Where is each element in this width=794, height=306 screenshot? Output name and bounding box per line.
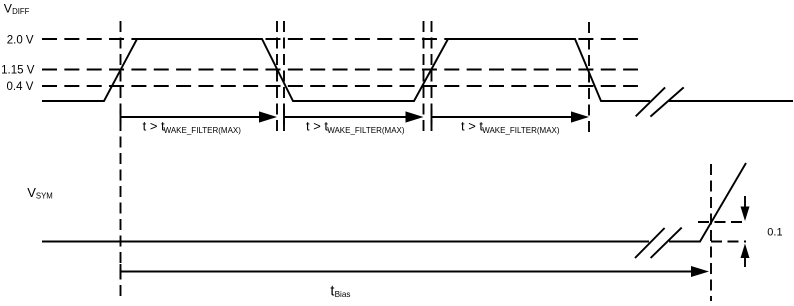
node VDIFF label <box>4 2 30 17</box>
wire vertical dashed line falling edge 2 (1.15 V crossing) <box>588 22 590 137</box>
svg-text:2.0 V: 2.0 V <box>7 34 34 46</box>
wire VDIFF waveform <box>42 39 793 101</box>
node label t>twake_filter(max) 3 <box>461 119 560 136</box>
svg-text:0.4 V: 0.4 V <box>7 81 34 93</box>
node arrow t>twake_filter 3 <box>432 110 590 125</box>
wire vertical dashed line at first rising edge (1.15 V crossing) <box>120 21 122 301</box>
wire short dashed line at 0.1 upper level <box>698 221 746 223</box>
svg-text:SYM: SYM <box>36 192 53 201</box>
svg-text:t > t: t > t <box>306 119 328 134</box>
svg-text:DIFF: DIFF <box>12 7 30 16</box>
wire vertical dashed line rising edge 2 (1.15 V crossing) <box>431 21 433 135</box>
svg-text:1.15 V: 1.15 V <box>1 64 35 76</box>
node tBias arrow <box>121 264 710 279</box>
svg-text:V: V <box>27 185 36 200</box>
wire vertical dashed line falling edge 1 (1.15 V crossing) <box>276 21 278 135</box>
node arrow t>twake_filter 2 <box>284 110 424 125</box>
svg-text:t > t: t > t <box>461 119 483 134</box>
node arrow t>twake_filter 1 <box>121 110 278 125</box>
node VSYM break slash 2 <box>651 228 682 258</box>
svg-text:WAKE_FILTER(MAX): WAKE_FILTER(MAX) <box>164 126 242 135</box>
svg-text:WAKE_FILTER(MAX): WAKE_FILTER(MAX) <box>482 126 560 135</box>
svg-text:t > t: t > t <box>143 119 165 134</box>
node label t>twake_filter(max) 1 <box>143 119 242 136</box>
wire 0.4 V dashed level line <box>42 85 638 87</box>
node label t>twake_filter(max) 2 <box>306 119 405 136</box>
svg-text:0.1: 0.1 <box>767 226 782 238</box>
wire vertical dashed line at bias end <box>710 164 712 301</box>
wire 2.0 V dashed level line <box>42 38 638 40</box>
svg-text:WAKE_FILTER(MAX): WAKE_FILTER(MAX) <box>327 126 405 135</box>
node up arrow at 0.1 measurement <box>741 244 750 268</box>
wire VSYM waveform <box>42 163 746 242</box>
svg-text:Bias: Bias <box>335 290 351 299</box>
node down arrow at 0.1 measurement <box>741 196 750 221</box>
node VSYM label <box>27 185 53 201</box>
node VDIFF break slash 1 <box>636 87 665 116</box>
wire 1.15 V dashed level line <box>42 69 638 71</box>
node tBias label <box>330 284 350 300</box>
node VSYM break slash 1 <box>635 228 665 258</box>
node VDIFF break slash 2 <box>650 87 683 116</box>
wire short dashed line at VSYM flat level <box>711 241 746 243</box>
wire vertical dashed line falling edge 1 (0.4 V crossing) <box>283 21 285 135</box>
wire vertical dashed line rising edge 2 (0.4 V crossing) <box>423 21 425 135</box>
